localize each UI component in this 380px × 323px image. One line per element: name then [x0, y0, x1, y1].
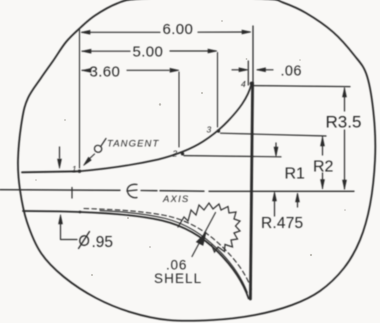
svg-text:2: 2 [172, 149, 178, 159]
centerline tick [71, 188, 73, 199]
reference line from point 3 [221, 133, 327, 136]
svg-text:.95: .95 [92, 234, 114, 251]
svg-text:R3.5: R3.5 [326, 113, 362, 132]
phi .95 bottom arrow and leader [61, 224, 78, 240]
tangent angle glyph [94, 139, 106, 153]
extension line 3.60 right [178, 72, 180, 147]
centerline symbol [127, 184, 137, 197]
svg-text:3: 3 [207, 125, 212, 135]
lower body line [23, 211, 80, 212]
svg-text:AXIS: AXIS [162, 194, 189, 205]
dimension .06 top [232, 69, 273, 71]
svg-text:4: 4 [241, 79, 246, 89]
revision cloud [178, 203, 240, 252]
svg-text:SHELL: SHELL [154, 271, 202, 286]
point 3 dot [217, 129, 220, 132]
ogive curve points 1-4 [79, 84, 252, 171]
dimension line 5.00 [82, 50, 216, 52]
svg-text:5.00: 5.00 [133, 44, 164, 61]
svg-text:R2: R2 [313, 159, 334, 176]
upper body line [22, 171, 79, 172]
phi glyph of .95 label [79, 232, 90, 249]
dimension line 3.60 [82, 69, 169, 71]
tangent leader arrow [88, 154, 95, 161]
R3.5 dimension line [344, 88, 346, 189]
svg-text:TANGENT: TANGENT [107, 139, 159, 150]
point 2 dot [181, 152, 184, 155]
lower shell inner curve [100, 211, 247, 293]
hidden dashed line along shell [84, 209, 252, 290]
reference line from point 2 [184, 156, 281, 157]
svg-text:R1: R1 [285, 166, 306, 183]
svg-text:1: 1 [72, 165, 76, 174]
dot on lower line [79, 211, 82, 214]
point 4 dot [250, 82, 254, 86]
dimension line 6.00 [82, 31, 250, 33]
phi .95 top arrow [59, 147, 61, 158]
R1 dimension arrows [275, 143, 277, 155]
extension line 5.00 right [217, 53, 219, 128]
reference line from point 4 [254, 86, 350, 87]
R2 dimension line [322, 137, 324, 189]
svg-text:.06: .06 [281, 64, 302, 80]
shell label leader [192, 213, 216, 257]
svg-text:3.60: 3.60 [90, 64, 121, 81]
point 1 dot [78, 170, 81, 173]
left extension line [79, 29, 81, 169]
svg-text:R.475: R.475 [261, 215, 303, 232]
lower shell outer curve [80, 212, 249, 299]
svg-text:6.00: 6.00 [163, 21, 194, 38]
axis centerline [0, 190, 354, 192]
spine vertical base line [252, 26, 254, 83]
inner shell line at point 4 [247, 61, 249, 85]
R.475 arrow [297, 194, 299, 207]
